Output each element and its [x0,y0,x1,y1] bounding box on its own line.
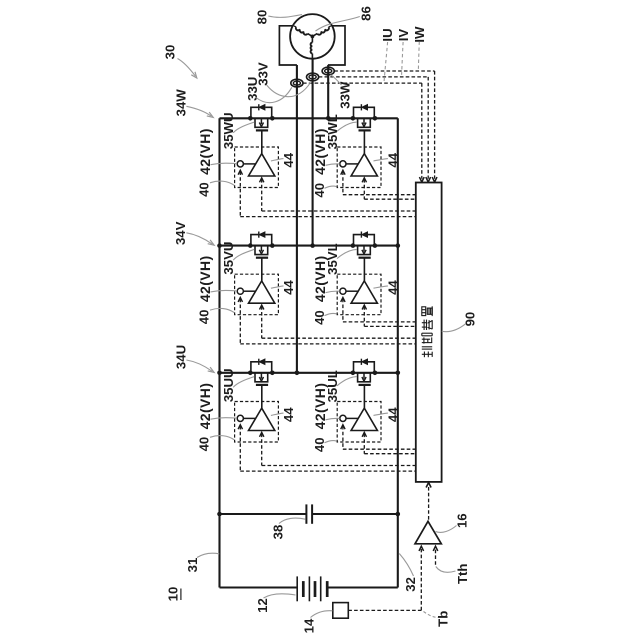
label 10 underlined [166,587,181,602]
drive circuit box 35VU [235,274,279,315]
signal line gate command 35UU [260,432,264,437]
transistor 35UL [351,371,356,376]
label 44 right [385,407,400,422]
signal line feedback 35WU [238,170,242,175]
label 35UL [325,370,340,402]
label Tth [455,564,470,585]
driver input terminal 35VL [340,288,346,294]
svg-text:42(VH): 42(VH) [312,383,328,430]
label 14 [302,618,317,633]
label 80 [255,10,270,25]
label 44 right [385,152,400,167]
signal line Tth stub [435,549,437,565]
svg-text:31: 31 [185,558,200,573]
signal line IU [303,82,422,84]
svg-text:40: 40 [312,437,327,452]
motor winding upper-left [308,34,313,37]
label 42(VH) left [197,128,213,175]
label 38 [271,525,286,540]
svg-text:86: 86 [359,6,374,21]
signal line IV [319,76,429,78]
label 34W with arrow [174,89,189,117]
driver input terminal 35VU [237,288,243,294]
svg-text:44: 44 [385,280,400,295]
signal line Tb [348,609,421,611]
label 16 [454,513,469,528]
signal line feedback 35WL [341,170,345,175]
label 42(VH) left [197,383,213,430]
current sensor 33V [307,73,319,81]
label 31 [185,558,200,573]
drive circuit box 35VL [337,274,381,315]
label 35VL [325,243,340,275]
drive circuit box 35WU [235,147,279,188]
wire bottom bus [220,586,298,588]
wire negative rail 32 [397,118,399,587]
wire U phase [296,65,298,373]
label Tb [436,611,451,627]
label 86 [359,6,374,21]
svg-text:44: 44 [281,407,296,422]
label IU [380,28,395,41]
svg-text:Tth: Tth [455,564,470,585]
label 90 [463,312,478,327]
transistor 35VU [248,243,253,248]
driver amplifier 35UL [351,408,377,430]
svg-text:IW: IW [412,26,427,43]
svg-text:14: 14 [302,618,317,633]
driver amplifier 35UU [249,408,275,430]
svg-text:40: 40 [312,310,327,325]
svg-text:12: 12 [255,598,270,613]
label 35VU [221,242,236,275]
junction dots on rails [217,243,222,248]
signal line gate command 35VL [362,305,366,309]
svg-text:44: 44 [281,280,296,295]
svg-text:33V: 33V [255,62,270,86]
signal line gate command 35WU [260,178,264,183]
svg-text:35VU: 35VU [221,242,236,275]
svg-text:40: 40 [197,437,212,452]
transistor 35WL [351,116,356,121]
label IV [396,29,411,42]
label 35UU [221,368,236,402]
signal line feedback 35VU [238,298,242,302]
control device 90 box [416,183,442,482]
driver amplifier 35WL [351,154,377,176]
driver amplifier 35WU [249,154,275,176]
label 42(VH) right [312,128,328,175]
svg-text:42(VH): 42(VH) [197,128,213,175]
svg-text:80: 80 [255,10,270,25]
label 35WL [325,114,340,149]
signal line feedback 35UU [238,425,242,430]
svg-text:40: 40 [312,183,327,198]
svg-text:IU: IU [380,28,395,41]
wire W phase [327,65,329,118]
battery 12 [296,576,298,601]
svg-text:32: 32 [403,577,418,592]
signal line feedback 35UL [341,425,345,430]
wire arm bus row U [220,372,398,374]
svg-text:38: 38 [271,525,286,540]
signal line IW [334,70,434,72]
driver amplifier 35VU [249,281,275,303]
signal line gate command 35VU [260,305,264,309]
driver amplifier 35VL [351,281,377,303]
svg-text:40: 40 [197,310,212,325]
motor winding upper-right [312,34,317,37]
capacitor 38 [305,504,307,523]
transistor 35UU [248,371,253,376]
label 40 right [312,183,327,198]
label 42(VH) right [312,255,328,302]
label 40 right [312,437,327,452]
svg-text:10: 10 [166,587,181,602]
svg-text:IV: IV [396,29,411,42]
wire arm bus row V [220,245,398,247]
svg-text:33W: 33W [338,81,353,109]
svg-text:30: 30 [163,45,178,60]
driver input terminal 35UU [237,415,243,421]
wire positive rail 31 [218,118,220,587]
svg-text:42(VH): 42(VH) [312,255,328,302]
label 30 with arrow [163,45,178,60]
label 42(VH) right [312,383,328,430]
label 34U with arrow [174,345,189,369]
sensor box 14 [333,603,349,619]
drive circuit box 35WL [337,147,381,188]
motor star node [311,35,315,39]
motor winding lower [311,36,313,42]
label 33W [338,81,353,109]
label 12 [255,598,270,613]
label 44 left [281,152,296,167]
svg-text:44: 44 [385,407,400,422]
signal line feedback 35VL [341,298,345,302]
svg-text:44: 44 [281,152,296,167]
signal line gate command 35WL [362,178,366,183]
junction dots phase taps [326,116,331,121]
transistor 35VL [351,243,356,248]
svg-text:34W: 34W [174,89,189,117]
control device kanji text [422,347,432,357]
svg-text:35UU: 35UU [221,368,236,402]
label 40 left [197,437,212,452]
svg-text:42(VH): 42(VH) [312,128,328,175]
amplifier 16 [415,521,441,544]
drive circuit box 35UU [235,402,279,443]
driver input terminal 35UL [340,415,346,421]
svg-text:42(VH): 42(VH) [197,383,213,430]
label 40 left [197,182,212,197]
svg-text:44: 44 [385,152,400,167]
wire V phase [312,59,314,246]
label 44 left [281,407,296,422]
wire arm bus row W [220,117,398,119]
motor 80 stator circle [290,14,335,59]
driver input terminal 35WU [237,161,243,167]
label 44 right [385,280,400,295]
svg-text:Tb: Tb [436,611,451,627]
svg-text:34V: 34V [173,221,188,245]
label 34V with arrow [173,221,188,245]
label IW [412,26,427,43]
signal line gate command 35UL [362,432,366,437]
svg-text:42(VH): 42(VH) [197,255,213,302]
wire capacitor bus [220,513,307,515]
label 35WU [221,112,236,149]
motor housing [279,26,345,65]
label 40 left [197,310,212,325]
transistor 35WU [248,116,253,121]
svg-text:40: 40 [197,182,212,197]
current sensor 33W [322,67,334,75]
drive circuit box 35UL [337,402,381,443]
label 40 right [312,310,327,325]
current sensor 33U [291,79,303,87]
svg-text:34U: 34U [174,345,189,369]
svg-text:35WU: 35WU [221,112,236,149]
label 32 [403,577,418,592]
label 33U [245,77,260,101]
label 42(VH) left [197,255,213,302]
label 33V [255,62,270,86]
label 44 left [281,280,296,295]
signal line amp output to controller [428,487,430,520]
driver input terminal 35WL [340,161,346,167]
